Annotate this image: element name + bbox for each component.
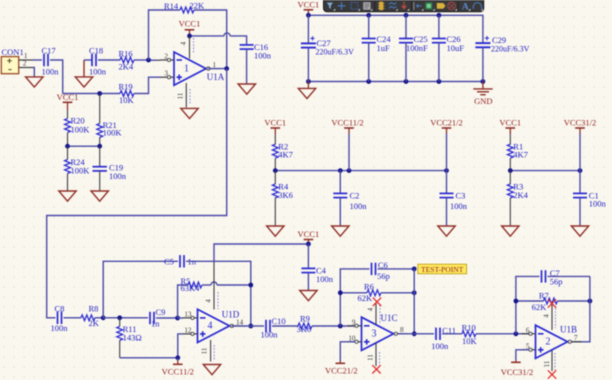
wire U1B pin5 to VCC31/2	[516, 350, 530, 361]
wire C9 to pin13 node	[156, 317, 160, 319]
toolbar rectangle icon	[351, 3, 358, 10]
wire C16 to ground	[246, 49, 248, 84]
resistor R10	[462, 323, 478, 347]
svg-text:100n: 100n	[316, 274, 334, 284]
toolbar part icon	[378, 2, 385, 11]
wire U1D pin12 to VCC11/2	[178, 334, 184, 358]
power VCC21/2 under U1C	[325, 361, 358, 376]
svg-text:C5: C5	[164, 257, 174, 267]
node U1C pin9	[338, 324, 343, 329]
power VCC1 at R1	[499, 118, 521, 145]
svg-text:4: 4	[543, 314, 551, 318]
node U1B pin6	[514, 331, 519, 336]
wire C8 to R8	[64, 317, 82, 319]
svg-text:VCC31/2: VCC31/2	[564, 118, 597, 128]
svg-text:R14: R14	[164, 1, 179, 11]
svg-text:10uF: 10uF	[447, 43, 465, 53]
svg-text:U1B: U1B	[560, 324, 577, 334]
op-amp U1A	[160, 52, 225, 85]
svg-text:R10: R10	[462, 323, 476, 333]
wire R10 to U1B pin6	[476, 333, 530, 335]
svg-text:C3: C3	[456, 190, 466, 200]
svg-text:11: 11	[177, 92, 185, 99]
toolbar port icon	[414, 2, 422, 10]
svg-text:3: 3	[372, 329, 377, 340]
wire C18 to R16	[98, 59, 120, 61]
wire R14 to output node	[194, 10, 227, 69]
wire R16 to U1A pin2	[134, 59, 149, 61]
power VCC1 for U1D	[298, 229, 320, 244]
svg-text:100n: 100n	[350, 201, 368, 211]
resistor R24	[65, 146, 91, 191]
wire U1A output node	[208, 68, 226, 70]
svg-text:100n: 100n	[261, 329, 279, 339]
svg-text:100n: 100n	[51, 323, 69, 333]
svg-text:56p: 56p	[377, 271, 390, 281]
op-amp U1B	[522, 324, 582, 358]
op-amp U1D	[184, 309, 244, 342]
svg-text:11: 11	[201, 347, 209, 354]
svg-text:VCC21/2: VCC21/2	[325, 366, 358, 376]
svg-text:1: 1	[213, 61, 217, 69]
op-amp U1C	[348, 313, 408, 350]
svg-text:100n: 100n	[589, 199, 607, 209]
svg-text:2K4: 2K4	[119, 61, 134, 71]
svg-text:100nF: 100nF	[406, 43, 428, 53]
capacitor C8	[51, 304, 69, 333]
svg-text:62K: 62K	[358, 293, 374, 303]
resistor R19	[119, 81, 135, 105]
ground under C1	[571, 226, 588, 236]
ground under R4	[267, 226, 284, 236]
wire R5 to output branch	[202, 282, 251, 285]
pin 4 of U1C	[367, 302, 381, 325]
svg-text:VCC31/2: VCC31/2	[501, 367, 534, 377]
capacitor C4	[301, 244, 333, 291]
resistor R1	[507, 142, 528, 171]
node U1D pin13	[175, 316, 180, 321]
resistor R16	[119, 48, 135, 71]
resistor R6	[340, 281, 414, 303]
svg-text:4: 4	[180, 41, 188, 45]
svg-text:100n: 100n	[431, 341, 449, 351]
svg-text:9: 9	[352, 318, 356, 326]
wire pin13 stub	[178, 317, 184, 319]
svg-text:100n: 100n	[450, 201, 468, 211]
svg-text:4: 4	[367, 307, 375, 311]
svg-text:11: 11	[543, 360, 551, 367]
svg-text:100n: 100n	[109, 171, 127, 181]
toolbar sheet symbol icon	[426, 3, 433, 10]
svg-text:3K6: 3K6	[297, 324, 312, 334]
power GND	[473, 82, 492, 106]
node A	[101, 315, 106, 320]
svg-text:2: 2	[164, 53, 168, 61]
ground under U1D	[203, 365, 220, 375]
wire C17 to R19 row	[50, 60, 63, 94]
wire right branch to U1B output	[572, 276, 590, 341]
wire C5 to output branch	[186, 261, 251, 326]
svg-text:C10: C10	[272, 316, 286, 326]
wire CON1 pin2 to ground	[33, 68, 34, 77]
svg-text:13: 13	[184, 310, 192, 318]
toolbar power port icon	[401, 2, 407, 10]
toolbar wire icon	[389, 3, 397, 8]
capacitor C1	[573, 171, 607, 226]
wire node A row	[103, 317, 148, 319]
svg-text:100n: 100n	[254, 51, 272, 61]
svg-text:TEST-POINT: TEST-POINT	[421, 265, 464, 274]
pin 4 of U1B	[543, 303, 556, 330]
editor floating toolbar	[324, 0, 484, 12]
capacitor C26	[432, 15, 464, 81]
power VCC31/2 label	[564, 118, 597, 171]
svg-text:A: A	[462, 2, 469, 12]
wire VCC1 to U1D pin4	[214, 244, 308, 262]
ground under C4	[300, 291, 317, 301]
ground under C2	[332, 226, 349, 236]
svg-text:R9: R9	[300, 313, 310, 323]
wire R9 to U1C pin9	[312, 325, 356, 327]
svg-text:6: 6	[526, 326, 530, 334]
connector CON1	[1, 47, 23, 73]
wire U1A output to bottom filter	[47, 69, 227, 318]
ground under C19	[91, 191, 108, 201]
svg-text:1n: 1n	[151, 319, 160, 329]
power VCC21/2 label	[430, 118, 463, 171]
ground under C27	[298, 82, 315, 99]
svg-text:4K7: 4K7	[278, 150, 293, 160]
toolbar no-erc icon	[448, 2, 456, 10]
wire top bus	[308, 15, 483, 41]
svg-text:U1A: U1A	[207, 72, 225, 82]
pin 2 of CON1	[19, 60, 33, 68]
svg-text:VCC1: VCC1	[298, 0, 320, 9]
resistor R7	[516, 291, 590, 312]
no-ERC marker U1B pin11	[548, 370, 556, 378]
pin 4 of U1A	[180, 36, 194, 59]
svg-text:100n: 100n	[42, 67, 60, 77]
capacitor C6	[372, 260, 390, 281]
ground under R24	[59, 191, 76, 201]
svg-text:12: 12	[184, 326, 192, 334]
svg-text:VCC21/2: VCC21/2	[430, 118, 463, 128]
resistor R2	[272, 142, 293, 171]
capacitor C2	[333, 171, 367, 226]
resistor R3	[507, 171, 528, 226]
svg-text:VCC11/2: VCC11/2	[162, 366, 194, 376]
capacitor C19	[93, 146, 127, 191]
capacitor C25	[399, 15, 428, 81]
svg-text:C18: C18	[89, 46, 103, 56]
capacitor C17	[42, 46, 60, 77]
svg-text:220uF/6.3V: 220uF/6.3V	[491, 44, 530, 53]
wire R14 feedback left leg	[149, 10, 181, 60]
svg-text:10K: 10K	[119, 95, 135, 105]
svg-text:4: 4	[205, 299, 213, 303]
net label TEST-POINT	[418, 264, 467, 274]
pin 11 of U1C	[367, 343, 380, 366]
resistor R5 feedback	[178, 276, 202, 318]
svg-text:100K: 100K	[71, 124, 91, 134]
ground for C18	[75, 60, 92, 87]
svg-text:3K6: 3K6	[278, 190, 293, 200]
wire R19 to U1A pin3	[134, 77, 160, 93]
capacitor C27	[301, 15, 354, 81]
svg-text:100n: 100n	[89, 67, 107, 77]
wire divider node row	[275, 170, 446, 172]
wire C7 to right branch	[548, 275, 590, 277]
wire R19 row	[63, 93, 120, 95]
capacitor C18	[89, 46, 107, 77]
wire U1C output	[398, 333, 414, 335]
svg-text:C2: C2	[350, 190, 360, 200]
svg-text:2: 2	[23, 60, 27, 68]
svg-text:56p: 56p	[550, 276, 563, 286]
svg-text:14: 14	[236, 318, 244, 326]
svg-text:U1C: U1C	[381, 313, 398, 323]
toolbar arc icon	[473, 3, 481, 9]
toolbar place icon	[338, 2, 346, 10]
capacitor C24	[362, 15, 392, 81]
svg-text:VCC1: VCC1	[179, 18, 201, 28]
svg-text:R8: R8	[89, 304, 99, 314]
wire R1 node to C1	[510, 170, 580, 172]
resistor R20	[65, 110, 91, 146]
no-ERC marker U1C pin11	[372, 365, 380, 373]
wire U1C pin10 to VCC21/2	[340, 342, 355, 361]
wire R11 to VCC11/2 node	[120, 357, 178, 359]
node R21 tap	[97, 91, 102, 96]
power VCC31/2 under U1B	[501, 361, 534, 378]
svg-text:R6: R6	[364, 281, 374, 291]
svg-text:1: 1	[184, 63, 189, 74]
power VCC1 at R2	[264, 118, 286, 145]
wire bias mid node	[68, 145, 100, 147]
toolbar dropdown marks	[333, 9, 483, 11]
wire C10 to R9	[272, 325, 298, 327]
svg-text:2K: 2K	[89, 318, 100, 328]
power VCC1 rail	[298, 0, 320, 15]
svg-text:VCC1: VCC1	[264, 118, 286, 128]
svg-text:220uF/6.3V: 220uF/6.3V	[316, 47, 355, 56]
svg-text:R19: R19	[119, 81, 133, 91]
svg-text:143Ω: 143Ω	[123, 333, 142, 343]
wire C11 to R10	[442, 333, 462, 335]
node U1A pin4	[187, 34, 192, 39]
pin 11 of U1D	[201, 340, 215, 362]
svg-text:VCC1: VCC1	[298, 229, 320, 239]
wire C6 to test point node	[378, 268, 415, 270]
ground under U1A	[181, 108, 198, 118]
svg-text:7: 7	[574, 334, 578, 342]
capacitor C5	[164, 255, 197, 267]
wire R8 to node A	[95, 317, 103, 319]
svg-text:8: 8	[400, 326, 404, 334]
svg-text:1: 1	[24, 52, 28, 60]
svg-text:4: 4	[208, 321, 213, 332]
pin 4 of U1D	[205, 262, 219, 310]
wire U1D output	[232, 325, 251, 327]
toolbar filter icon	[327, 3, 333, 9]
capacitor C16	[240, 42, 272, 61]
resistor R21	[97, 94, 123, 147]
svg-text:R7: R7	[539, 291, 549, 301]
ground under R3	[502, 226, 519, 236]
wire CON1 pin1 to C17	[33, 59, 42, 61]
ground under C3	[438, 226, 455, 236]
pin 11 of U1A	[177, 83, 191, 108]
resistor R4	[272, 171, 293, 226]
node R11 tap	[117, 315, 122, 320]
svg-text:2: 2	[546, 337, 551, 348]
svg-text:11: 11	[367, 354, 375, 361]
capacitor C3	[440, 171, 468, 226]
svg-text:22K: 22K	[190, 1, 206, 11]
wire node A up to C5	[103, 261, 178, 318]
svg-text:GND: GND	[474, 96, 492, 106]
node pin2 net	[146, 58, 151, 63]
resistor R11	[117, 318, 142, 358]
svg-text:VCC1: VCC1	[499, 118, 521, 128]
wire bottom bus	[308, 81, 483, 83]
svg-text:63K4: 63K4	[181, 283, 201, 293]
resistor R14	[164, 1, 205, 13]
power VCC11/2 label	[331, 118, 363, 171]
svg-text:62K: 62K	[532, 302, 548, 312]
power VCC1 at U1A pin4	[179, 18, 201, 36]
wire pin6 node up to C7	[516, 276, 540, 333]
resistor R9	[297, 313, 312, 334]
svg-text:C8: C8	[55, 304, 65, 314]
capacitor C29	[475, 35, 529, 82]
no-ERC marker U1C pin4	[373, 298, 381, 306]
svg-text:VCC1: VCC1	[57, 92, 79, 102]
svg-text:3: 3	[164, 70, 168, 78]
svg-text:100K: 100K	[103, 127, 123, 137]
capacitor C11	[414, 325, 456, 351]
capacitor C10	[251, 316, 286, 339]
resistor R8	[81, 304, 100, 328]
svg-text:1uF: 1uF	[377, 43, 391, 53]
svg-text:100K: 100K	[71, 165, 91, 175]
power VCC11/2 under U1D	[162, 358, 194, 377]
toolbar document icon	[363, 2, 370, 10]
wire C6/R6 right branch to output	[413, 269, 415, 334]
svg-text:R16: R16	[119, 48, 133, 58]
svg-text:4K7: 4K7	[513, 150, 528, 160]
ground under C16	[238, 84, 255, 94]
svg-text:C9: C9	[156, 307, 166, 317]
no-ERC marker U1B pin4	[548, 299, 556, 307]
svg-text:CON1: CON1	[2, 47, 24, 57]
capacitor C7	[542, 268, 563, 286]
pin 1 of CON1	[19, 52, 33, 60]
wire pin9 node up to C6	[340, 269, 369, 326]
svg-text:2K4: 2K4	[513, 190, 528, 200]
svg-text:VCC11/2: VCC11/2	[331, 118, 363, 128]
svg-text:10K: 10K	[462, 336, 478, 346]
ground under CON1	[26, 77, 43, 87]
svg-text:C17: C17	[42, 46, 56, 56]
power VCC1 at R20	[57, 92, 79, 110]
toolbar sheet entry icon	[437, 3, 446, 9]
capacitor C9	[150, 307, 165, 328]
wire VCC1 to C16	[190, 33, 247, 44]
wire ground to C18	[84, 59, 92, 61]
pin 11 of U1B	[543, 351, 555, 372]
